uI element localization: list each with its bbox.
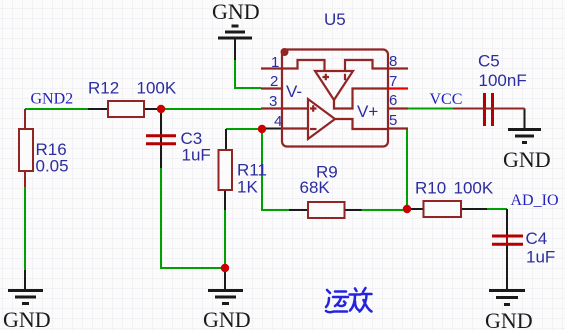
svg-text:100K: 100K [137, 79, 177, 98]
svg-text:V+: V+ [357, 102, 378, 121]
svg-text:AD_IO: AD_IO [511, 192, 559, 209]
svg-text:8: 8 [389, 53, 397, 70]
svg-text:GND: GND [3, 307, 51, 330]
svg-text:1uF: 1uF [526, 248, 555, 267]
svg-text:VCC: VCC [430, 91, 463, 108]
svg-text:68K: 68K [300, 178, 331, 197]
svg-text:C4: C4 [526, 229, 548, 248]
svg-text:R10: R10 [415, 179, 446, 198]
svg-text:GND2: GND2 [31, 91, 74, 108]
svg-text:2: 2 [270, 73, 278, 90]
svg-text:GND: GND [503, 147, 551, 172]
svg-text:1K: 1K [237, 178, 258, 197]
svg-text:V-: V- [286, 82, 302, 101]
svg-text:0.05: 0.05 [36, 157, 69, 176]
svg-text:1uF: 1uF [182, 146, 211, 165]
svg-text:U5: U5 [324, 10, 346, 29]
svg-text:7: 7 [389, 73, 397, 90]
svg-text:GND: GND [203, 307, 251, 330]
svg-text:5: 5 [389, 112, 397, 129]
svg-text:6: 6 [389, 92, 397, 109]
svg-text:100K: 100K [454, 179, 494, 198]
svg-text:4: 4 [274, 113, 282, 130]
svg-text:R12: R12 [88, 79, 119, 98]
svg-text:100nF: 100nF [479, 71, 527, 90]
svg-text:GND: GND [212, 0, 260, 24]
svg-text:GND: GND [485, 308, 533, 330]
svg-text:1: 1 [271, 54, 279, 71]
svg-text:C5: C5 [478, 52, 500, 71]
svg-text:3: 3 [269, 93, 277, 110]
